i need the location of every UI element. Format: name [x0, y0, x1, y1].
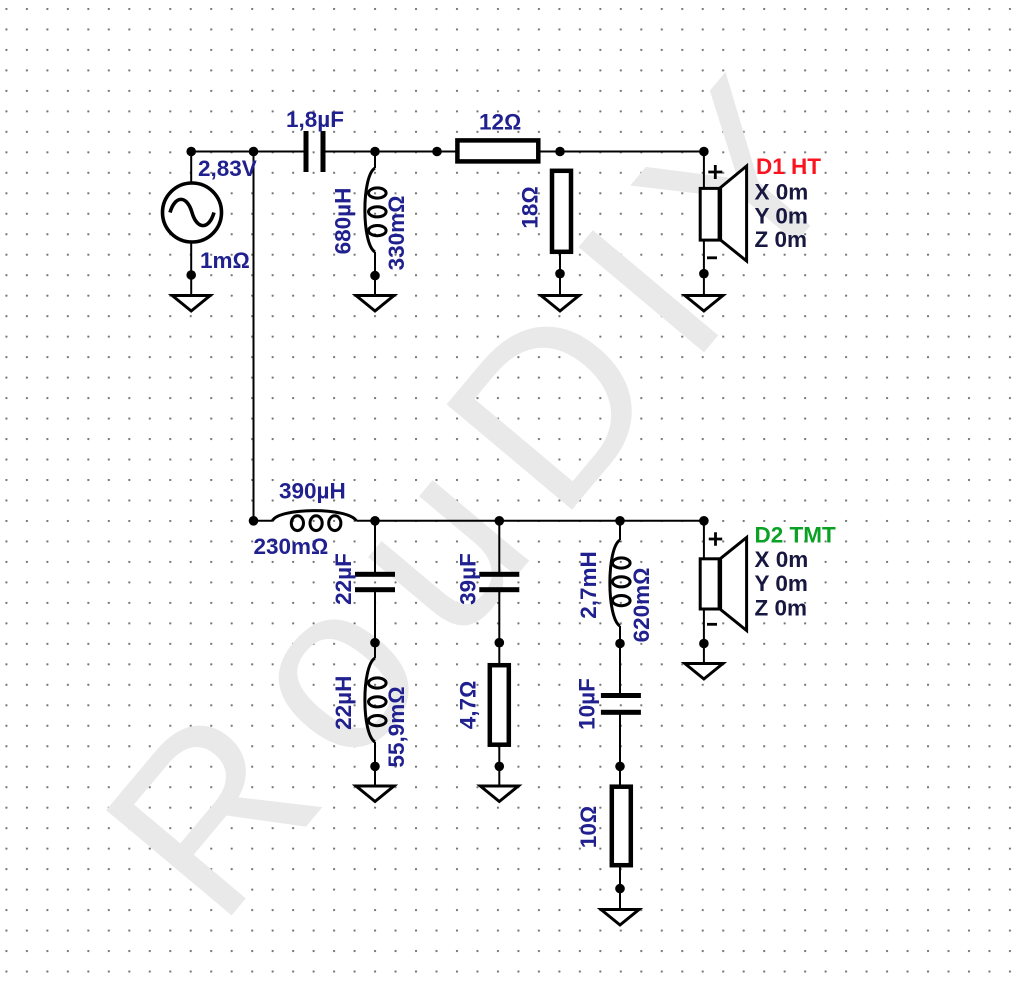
junction R4 bottom: [615, 884, 625, 894]
svg-text:Y 0m: Y 0m: [755, 204, 808, 229]
junction C3 rail: [495, 516, 505, 526]
svg-text:10Ω: 10Ω: [576, 806, 601, 848]
svg-text:D2 TMT: D2 TMT: [755, 523, 837, 548]
capacitor C1 1,8uF plates: [304, 131, 309, 172]
svg-text:55,9mΩ: 55,9mΩ: [384, 686, 409, 767]
svg-text:Y 0m: Y 0m: [755, 571, 808, 596]
junction C2 rail: [370, 516, 380, 526]
wire L4 to C4: [619, 626, 621, 693]
junction source bottom: [186, 270, 196, 280]
resistor R4 10O: [612, 787, 631, 866]
svg-text:230mΩ: 230mΩ: [254, 534, 329, 559]
junction R3 bottom: [495, 762, 505, 772]
svg-text:10µF: 10µF: [575, 678, 600, 730]
junction speaker D2 node: [699, 516, 709, 526]
junction L1 top: [370, 147, 380, 157]
svg-text:1,8µF: 1,8µF: [286, 107, 344, 132]
resistor R3 4,7O: [490, 665, 509, 745]
wire C2 top stub: [374, 521, 376, 573]
speaker D2 minus: [707, 623, 717, 626]
wire L3 to ground: [374, 742, 376, 788]
ground R2: [541, 296, 579, 312]
speaker D2 plus: [709, 532, 722, 545]
speaker D2 horn: [721, 538, 747, 631]
junction L4 bottom: [615, 639, 625, 649]
wire top rail left: [191, 151, 304, 153]
wire source top stub: [190, 152, 192, 185]
wire speaker D2 top stub: [703, 521, 705, 558]
svg-text:330mΩ: 330mΩ: [384, 196, 409, 271]
wire C4 to R4: [619, 713, 621, 786]
ground speaker D2: [685, 664, 723, 680]
svg-text:390µH: 390µH: [279, 479, 346, 504]
junction L3 bottom: [370, 762, 380, 772]
junction R2 bottom: [555, 269, 565, 279]
svg-text:39µF: 39µF: [455, 553, 480, 605]
wire source bottom to ground: [190, 242, 192, 296]
wire bottom rail left stub: [254, 520, 273, 522]
junction L4 rail: [615, 516, 625, 526]
junction before R1: [432, 147, 442, 157]
wire speaker D1 bottom to ground: [703, 240, 705, 296]
wire L1 bottom to ground: [374, 252, 376, 296]
voltage source sine: [170, 199, 214, 225]
ground R3: [480, 786, 518, 802]
ground source: [172, 296, 210, 312]
inductor L1 680uH coil: [365, 168, 386, 252]
speaker D2 body: [700, 559, 719, 609]
svg-text:X 0m: X 0m: [755, 547, 809, 572]
junction feed top: [249, 147, 259, 157]
wire top rail right: [325, 151, 704, 153]
ground speaker D1: [685, 296, 723, 312]
wire R4 to ground: [619, 865, 621, 913]
speaker D1 body: [700, 188, 719, 240]
junction L1 bottom: [370, 271, 380, 281]
svg-text:4,7Ω: 4,7Ω: [455, 681, 480, 730]
wire long vertical feed: [253, 152, 255, 521]
svg-text:680µH: 680µH: [331, 188, 356, 255]
junction C2 bottom: [370, 638, 380, 648]
wire speaker D2 bottom: [703, 610, 705, 664]
junction speaker D1 bottom: [699, 269, 709, 279]
svg-text:X 0m: X 0m: [755, 180, 809, 205]
wire L4 top stub: [619, 521, 621, 540]
speaker D1 horn: [721, 166, 747, 261]
wire bottom rail: [356, 520, 704, 522]
wire C2 to L3: [374, 591, 376, 658]
speaker D1 minus: [707, 256, 717, 259]
resistor R2 18O: [552, 171, 571, 252]
wire R2 bottom to ground: [559, 254, 561, 296]
speaker D1 plus: [708, 165, 722, 179]
wire speaker D1 top stub: [703, 152, 705, 189]
capacitor C3 39uF plates: [479, 572, 519, 577]
voltage source U1 circle: [163, 183, 222, 242]
svg-text:1mΩ: 1mΩ: [200, 248, 250, 273]
svg-text:Z 0m: Z 0m: [755, 596, 808, 621]
wire R3 to ground: [498, 744, 500, 788]
inductor L4 2,7mH coil: [610, 540, 630, 626]
svg-text:Z 0m: Z 0m: [755, 227, 808, 252]
svg-text:620mΩ: 620mΩ: [629, 568, 654, 643]
inductor L2 390uH coil: [272, 511, 356, 531]
capacitor C2 22uF plates: [355, 572, 395, 577]
junction R2 top: [555, 147, 565, 157]
junction bottom rail left: [249, 516, 259, 526]
junction speaker D1 node: [699, 147, 709, 157]
junction source top: [186, 147, 196, 157]
svg-text:18Ω: 18Ω: [518, 186, 543, 228]
inductor L3 22uH coil: [365, 658, 386, 742]
svg-text:22µF: 22µF: [331, 553, 356, 605]
svg-text:D1 HT: D1 HT: [756, 154, 821, 179]
resistor R1 12O: [457, 140, 538, 161]
capacitor C4 10uF plates: [601, 693, 641, 698]
junction C3 bottom: [495, 638, 505, 648]
svg-text:2,7mH: 2,7mH: [576, 551, 601, 619]
ground L1: [356, 296, 394, 312]
junction speaker D2 bottom: [699, 639, 709, 649]
ground L3: [356, 786, 394, 802]
svg-text:12Ω: 12Ω: [479, 110, 521, 135]
wire C3 to R3: [498, 591, 500, 665]
svg-text:22µH: 22µH: [331, 676, 356, 730]
wire C3 top stub: [498, 521, 500, 573]
wire L1 top stub: [374, 152, 376, 169]
junction C4 bottom: [615, 762, 625, 772]
ground R4: [601, 910, 639, 926]
svg-text:2,83V: 2,83V: [198, 156, 257, 181]
